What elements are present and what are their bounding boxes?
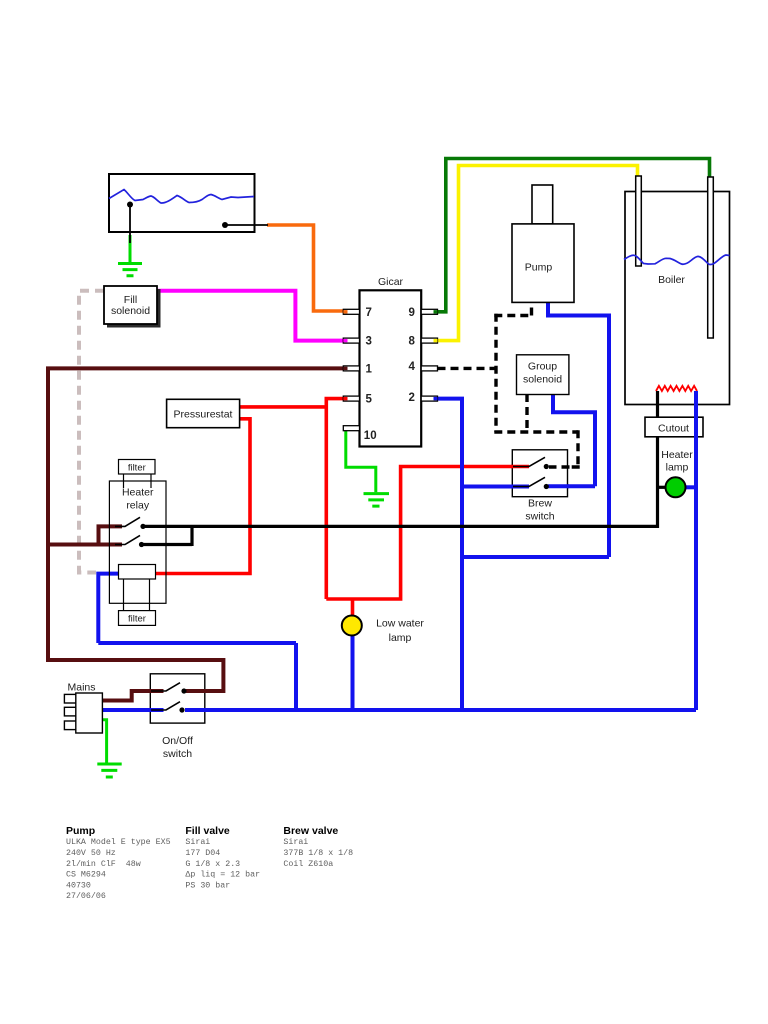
svg-text:lamp: lamp [666, 462, 689, 474]
svg-text:1: 1 [366, 363, 373, 375]
pin 2 terminal [421, 396, 437, 401]
svg-text:Gicar: Gicar [378, 276, 404, 288]
electrode short (level probe) [636, 176, 642, 266]
wire blue: on/off pole2 dot to right [185, 708, 206, 712]
wire blue: heater lamp right stub [685, 485, 697, 489]
solenoid L1 Fill solenoid box [104, 286, 157, 324]
ground symbol at Gicar pin10 [364, 494, 390, 507]
boiler water level wavy line [624, 255, 730, 265]
wire: tank probe down to ground [129, 205, 131, 244]
svg-text:G 1/8 x 2.3: G 1/8 x 2.3 [185, 859, 240, 869]
mains plug prong 2 [64, 707, 75, 716]
water level wavy line in tank [109, 190, 254, 204]
svg-text:Sirai: Sirai [283, 837, 308, 847]
svg-text:Coil Z610a: Coil Z610a [283, 859, 333, 869]
pin 8 terminal [421, 338, 437, 343]
svg-text:CS M6294: CS M6294 [66, 871, 106, 880]
wire blue: group solenoid into pole2 dot [548, 484, 569, 488]
grey dashed wire: fill solenoid to heater relay coil [79, 291, 104, 573]
svg-text:Low water: Low water [376, 618, 424, 630]
wire magenta: fill solenoid to Gicar pin3 [157, 291, 343, 341]
svg-text:Heater: Heater [661, 449, 693, 461]
svg-text:switch: switch [163, 748, 192, 760]
svg-text:ULKA Model E type EX5: ULKA Model E type EX5 [66, 837, 171, 847]
switch S2 Brew switch box [512, 450, 567, 497]
wire red: pressurestat bottom to heater relay coil [156, 419, 251, 574]
wire blue: low water lamp to neutral rail [351, 635, 355, 711]
pin 3 terminal [343, 338, 359, 343]
svg-text:7: 7 [366, 307, 372, 319]
svg-text:10: 10 [364, 430, 377, 442]
wire black: relay pole2 link up to pole1 rail [142, 525, 193, 546]
wire: tank level probe to orange [225, 224, 268, 226]
wire dashed black: down to brew switch pole1 [549, 430, 580, 467]
pump P1 neck [532, 185, 553, 224]
wire blue: pump to pin2 riser [462, 302, 609, 558]
wire black: element left lead to cutout [656, 391, 659, 417]
pin 1 terminal [343, 366, 359, 371]
wire maroon branch to heater relay poles [48, 524, 122, 544]
water tank box [109, 174, 255, 232]
wire red: bottom run to brew switch [326, 467, 529, 600]
svg-text:Fill valve: Fill valve [185, 825, 230, 837]
wire yellow: Gicar pin8 to boiler short electrode [438, 166, 638, 341]
heater relay pole1 lever [115, 517, 140, 526]
relay K1 top filter box [119, 460, 156, 475]
svg-text:switch: switch [525, 511, 554, 523]
svg-text:9: 9 [409, 307, 415, 319]
svg-text:filter: filter [128, 462, 146, 473]
heater lamp DS1 (green) [666, 477, 686, 497]
wire green: Gicar pin10 to ground [97, 235, 389, 777]
wire black: live rail from heater relay to cutout [142, 525, 658, 528]
svg-text:Mains: Mains [67, 682, 95, 694]
wire blue: into on/off pole2 left [149, 708, 164, 712]
wire blue: neutral rail along bottom [185, 708, 696, 712]
cutout thermal switch box [645, 417, 703, 437]
pin 5 terminal [343, 396, 359, 401]
relay K1 bottom filter box [119, 611, 156, 626]
svg-text:Brew valve: Brew valve [283, 825, 338, 837]
brew switch pole1 lever [513, 457, 545, 466]
svg-text:filter: filter [128, 613, 146, 624]
pin 7 terminal [343, 309, 359, 314]
wire blue: heater relay coil to neutral rail [98, 572, 296, 710]
wire black: cutout down to black rail [656, 437, 659, 528]
wire maroon: mains live to On/Off switch [102, 691, 163, 701]
wire blue: group solenoid to brew switch pole2 [548, 394, 595, 486]
pin 4 terminal [421, 366, 437, 371]
svg-text:240V 50 Hz: 240V 50 Hz [66, 849, 116, 858]
boiler B1 box [625, 192, 730, 405]
tank sensor node B (level probe) [222, 222, 228, 228]
wire red: pressurestat top terminal [240, 405, 327, 409]
svg-text:solenoid: solenoid [111, 305, 150, 317]
wire blue: boiler element right lead to neutral rail [694, 391, 698, 710]
svg-text:Pump: Pump [66, 825, 95, 837]
svg-text:2: 2 [409, 392, 415, 404]
svg-text:On/Off: On/Off [162, 735, 193, 747]
svg-text:27/06/06: 27/06/06 [66, 891, 106, 901]
electrode long (low water probe) [708, 177, 714, 338]
ground symbol at mains [97, 764, 121, 777]
svg-text:Group: Group [528, 361, 557, 373]
wire blue: mains neutral to On/Off switch [98, 302, 696, 711]
wire dashed black: group solenoid lead [525, 394, 528, 430]
wire blue: into brew switch pole2 [511, 485, 529, 489]
relay K1 top filter leads [124, 474, 152, 488]
brew switch pole2 lever [513, 477, 545, 486]
svg-text:2l/min ClF 48w: 2l/min ClF 48w [66, 859, 141, 869]
ground symbol at tank [118, 264, 142, 276]
tank sensor node A (ground probe) [127, 202, 133, 208]
pin 9 terminal [421, 309, 437, 314]
brew switch pole2 contact dot [544, 484, 549, 489]
switch S1 On/Off switch box [150, 674, 205, 723]
wire dashed black: into pole1 dot [549, 465, 570, 468]
wire blue: tap to brew switch pole2 [462, 485, 529, 489]
on/off switch pole2 contact dot [179, 707, 184, 712]
svg-text:177 D04: 177 D04 [185, 849, 220, 858]
controller U1 Gicar box [360, 290, 422, 446]
heater relay pole1 contact dot [140, 524, 145, 529]
svg-text:Brew: Brew [528, 498, 552, 510]
wire maroon: Gicar pin1 to On/Off switch [48, 368, 343, 700]
wire red: Gicar pin5 junction down [156, 399, 530, 617]
wire black: stub to heater lamp [658, 486, 667, 489]
wire red: into brew switch pole1 [511, 465, 529, 469]
wire maroon: on/off pole1 dot to right [186, 689, 206, 693]
wire blue: Gicar pin2 down to neutral rail [438, 397, 463, 710]
brew switch pole1 contact dot [544, 464, 549, 469]
on/off switch pole2 lever [151, 702, 180, 710]
pin 10 terminal [343, 426, 359, 431]
on/off switch pole1 contact dot [181, 688, 186, 693]
wire orange: tank sensor to Gicar pin7 [267, 225, 343, 311]
wire green: mains earth [102, 720, 107, 763]
svg-text:8: 8 [409, 336, 416, 348]
on/off switch pole1 lever [151, 683, 180, 691]
svg-text:3: 3 [366, 336, 372, 348]
pump P1 box [512, 224, 574, 303]
svg-text:4: 4 [409, 361, 416, 373]
relay K1 coil box [119, 565, 156, 580]
svg-text:Sirai: Sirai [185, 837, 210, 847]
relay K1 Heater relay box [109, 481, 166, 603]
svg-text:Cutout: Cutout [658, 423, 689, 435]
solenoid L2 Group solenoid box [517, 355, 569, 395]
svg-text:5: 5 [366, 394, 373, 406]
mains plug prong 1 [64, 694, 75, 703]
heater relay pole2 contact dot [139, 542, 144, 547]
svg-text:377B 1/8 x 1/8: 377B 1/8 x 1/8 [283, 848, 353, 858]
wire green: tank sensor ground [129, 235, 132, 262]
svg-text:40730: 40730 [66, 881, 91, 890]
svg-text:Δp liq = 12 bar: Δp liq = 12 bar [185, 870, 260, 880]
svg-text:Pump: Pump [525, 262, 553, 274]
heater relay pole2 lever [115, 535, 140, 544]
svg-text:Heater: Heater [122, 487, 154, 499]
fill solenoid shadow [107, 289, 161, 328]
svg-text:Boiler: Boiler [658, 274, 685, 286]
low water lamp DS2 (yellow) [342, 616, 362, 636]
wire dashed black: Gicar pin4 net [438, 301, 580, 468]
wire red: stub to low water lamp [351, 599, 355, 617]
svg-text:lamp: lamp [389, 632, 412, 644]
svg-text:relay: relay [126, 500, 150, 512]
relay K1 coil leads down [124, 579, 150, 611]
pressurestat box [167, 399, 240, 427]
wire dark green: Gicar pin9 to boiler long electrode [438, 159, 710, 312]
wire blue: boiler right lead over cutout [694, 391, 698, 710]
svg-text:PS 30 bar: PS 30 bar [185, 880, 230, 890]
heating element R1 zigzag [656, 386, 697, 391]
mains plug prong 3 [64, 721, 75, 730]
wire tips into terminals [343, 310, 347, 313]
mains plug connector body [76, 693, 103, 733]
wire maroon: into on/off pole1 left [149, 689, 164, 693]
svg-text:solenoid: solenoid [523, 374, 562, 386]
svg-text:Pressurestat: Pressurestat [174, 409, 233, 421]
